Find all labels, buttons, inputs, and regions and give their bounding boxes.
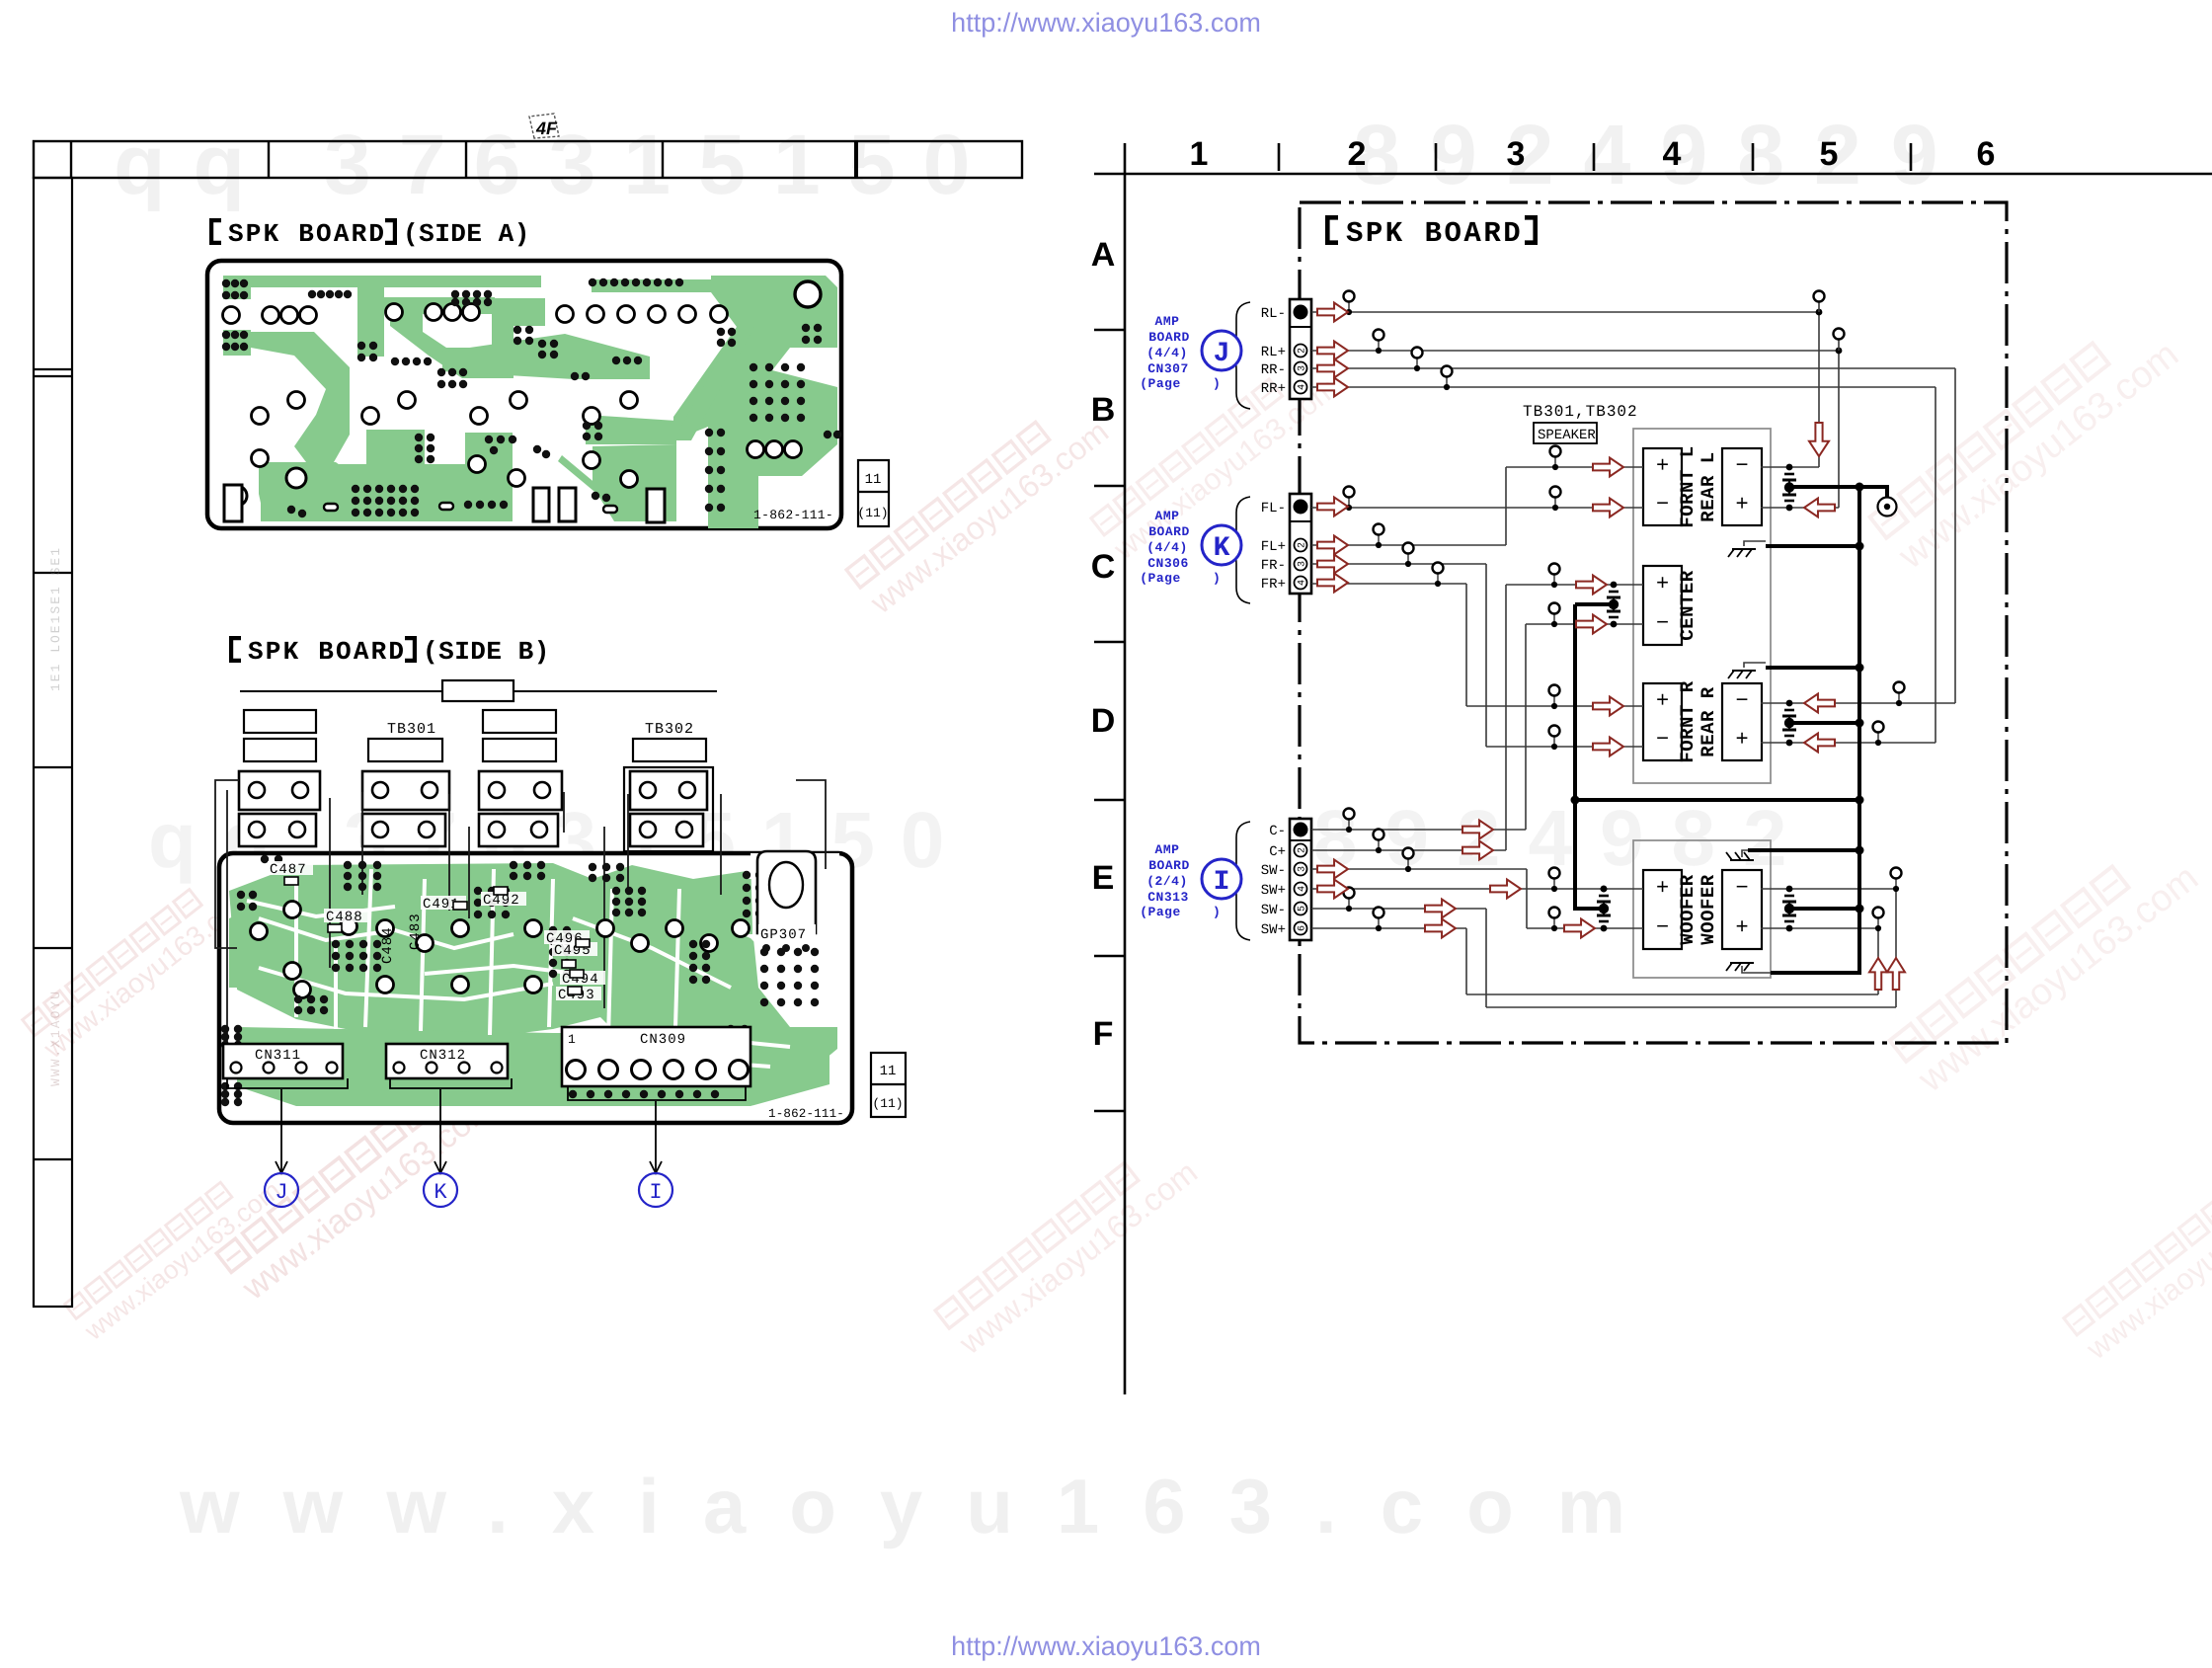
svg-text:RL+: RL+	[1261, 345, 1286, 360]
svg-text:): )	[1213, 905, 1221, 919]
svg-text:www.xiaoyu163.com: www.xiaoyu163.com	[79, 1175, 286, 1346]
svg-text:+: +	[1736, 913, 1749, 938]
side A solder slots	[324, 503, 617, 513]
svg-text:2: 2	[1348, 135, 1367, 173]
side B white trace channels	[247, 869, 790, 1067]
side A copper traces	[223, 276, 837, 528]
svg-text:3: 3	[1298, 561, 1308, 567]
svg-text:RL-: RL-	[1261, 306, 1286, 322]
LF logo	[529, 114, 559, 138]
connector CN313 (I) block	[1290, 819, 1311, 940]
svg-text:11: 11	[865, 472, 882, 488]
svg-text:−: −	[1736, 686, 1749, 711]
CN306 brace	[1228, 497, 1250, 603]
side A corner hole	[795, 281, 821, 307]
red arrows up bottom right	[1869, 958, 1887, 990]
node J circle	[265, 1173, 298, 1207]
svg-text:BOARD: BOARD	[1148, 858, 1190, 873]
wire C+ (I2 to CENTER plus)	[1311, 585, 1643, 850]
svg-text:2: 2	[1298, 542, 1308, 548]
svg-text:(Page: (Page	[1140, 376, 1181, 391]
connector CN307 (J) block	[1290, 299, 1311, 399]
grommet GP307	[757, 851, 816, 933]
svg-text:AMP: AMP	[1155, 314, 1180, 329]
svg-text:SPK BOARD: SPK BOARD	[228, 219, 386, 249]
svg-text:+: +	[1656, 451, 1669, 476]
svg-text:SW-: SW-	[1261, 863, 1286, 879]
svg-text:I: I	[649, 1180, 662, 1205]
svg-text:C484: C484	[380, 926, 396, 964]
column tick separators	[1278, 143, 1281, 171]
svg-text:4: 4	[1298, 384, 1308, 390]
svg-text:+: +	[1736, 490, 1749, 515]
side A sheet ref box	[858, 460, 889, 526]
svg-text:FR-: FR-	[1261, 558, 1286, 574]
red arrows into CENTER	[1576, 576, 1607, 595]
svg-text:): )	[1213, 571, 1221, 586]
svg-text:www.xiaoyu163.com: www.xiaoyu163.com	[864, 414, 1116, 621]
leader arrow to J	[276, 1089, 287, 1173]
svg-text:SPK BOARD: SPK BOARD	[1346, 217, 1523, 250]
side A bottom-left big holes	[286, 468, 306, 488]
svg-text:GP307: GP307	[760, 927, 807, 943]
svg-text:11: 11	[880, 1064, 897, 1079]
speaker group outer box	[1633, 429, 1771, 783]
svg-text:3: 3	[1507, 135, 1526, 173]
svg-text:http://www.xiaoyu163.com: http://www.xiaoyu163.com	[951, 8, 1261, 38]
watermark pink cluster below side B	[216, 1064, 502, 1308]
SPK BOARD SIDE B title	[229, 636, 550, 667]
wire REAR R right tails	[1898, 690, 1900, 703]
capacitor ref labels C487-C493	[268, 861, 313, 875]
svg-text:−: −	[1656, 490, 1669, 515]
svg-text:CN313: CN313	[1147, 890, 1189, 905]
svg-text:(2/4): (2/4)	[1146, 874, 1188, 889]
leader arrow to K	[434, 1089, 446, 1173]
thick link REAR R pair to bus	[1789, 721, 1859, 725]
svg-text:A: A	[1091, 236, 1116, 274]
thick mid bus horizontal	[1575, 798, 1859, 802]
svg-text:FL-: FL-	[1261, 501, 1286, 516]
ground symbol 2	[1744, 663, 1766, 668]
ground symbol 1	[1744, 541, 1766, 546]
watermark pink cluster near connector K	[1090, 350, 1344, 567]
svg-text:+: +	[1656, 570, 1669, 595]
svg-text:RR+: RR+	[1261, 381, 1286, 397]
svg-text:CN309: CN309	[640, 1032, 686, 1048]
speaker terminal block 1	[239, 771, 320, 810]
leader arrow to I	[650, 1101, 662, 1173]
svg-text:WOOFER: WOOFER	[1677, 874, 1698, 945]
svg-text:4: 4	[1298, 580, 1308, 586]
wire RL- (J1 to REAR L minus)	[1311, 311, 1819, 313]
svg-text:B: B	[1091, 391, 1116, 429]
speaker FORNT L terminal box	[1643, 448, 1682, 525]
wire SW+ second (I6 to WOOFER2 plus)	[1311, 928, 1878, 994]
svg-text:K: K	[434, 1180, 447, 1205]
node J circle schematic	[1202, 331, 1241, 370]
svg-text:CN307: CN307	[1147, 361, 1189, 376]
svg-text:http://www.xiaoyu163.com: http://www.xiaoyu163.com	[951, 1631, 1261, 1661]
CN307 brace	[1228, 302, 1250, 409]
svg-text:6: 6	[1298, 925, 1308, 931]
svg-text:REAR R: REAR R	[1698, 686, 1719, 757]
svg-text:www.xiaoyu163.com: www.xiaoyu163.com	[179, 1463, 1669, 1549]
svg-text:C483: C483	[408, 913, 424, 950]
svg-text:CENTER: CENTER	[1677, 570, 1698, 641]
svg-text:(SIDE B): (SIDE B)	[423, 637, 550, 667]
svg-text:E: E	[1092, 859, 1115, 897]
svg-text:2: 2	[1298, 348, 1308, 354]
svg-text:−: −	[1656, 913, 1669, 938]
svg-text:SW-: SW-	[1261, 903, 1286, 918]
svg-text:TB302: TB302	[645, 721, 694, 738]
svg-text:CN311: CN311	[255, 1048, 301, 1064]
watermark pink cluster center gap	[845, 391, 1115, 621]
svg-text:(4/4): (4/4)	[1146, 346, 1188, 360]
svg-text:−: −	[1656, 609, 1669, 634]
connector CN312	[386, 1044, 508, 1078]
svg-text:(11): (11)	[857, 506, 888, 520]
svg-text:TB301: TB301	[387, 721, 436, 738]
svg-text:1: 1	[1190, 135, 1209, 173]
svg-text:CN306: CN306	[1147, 556, 1189, 571]
SPK BOARD schematic title	[1325, 215, 1538, 250]
speaker REAR L terminal box	[1722, 448, 1762, 525]
svg-text:(11): (11)	[872, 1096, 903, 1111]
svg-text:(SIDE A): (SIDE A)	[403, 219, 530, 249]
svg-text:+: +	[1656, 686, 1669, 711]
connector pair symbol REAR L	[1786, 464, 1793, 471]
red arrow left on RL+	[1804, 499, 1835, 517]
tiny resistor icons	[284, 877, 590, 994]
side B solder pads	[344, 861, 352, 869]
side B hookup wires from terminal blocks	[215, 780, 826, 1045]
watermark pink cluster bottom left	[64, 1156, 286, 1346]
side B sheet ref box	[871, 1053, 906, 1117]
watermark pink cluster right top	[1869, 306, 2186, 578]
svg-text:FORNT L: FORNT L	[1677, 445, 1698, 527]
svg-text:3: 3	[1298, 365, 1308, 371]
red arrows into FORNT R	[1593, 697, 1623, 716]
svg-text:89249829: 89249829	[1353, 108, 1968, 202]
speaker WOOFER right terminal box	[1722, 870, 1762, 949]
svg-text:www.xiaoyu163.com: www.xiaoyu163.com	[1910, 857, 2206, 1101]
red arrows on SW second lines	[1425, 900, 1456, 918]
connector CN309	[562, 1027, 750, 1086]
thick woofer top ground link	[1748, 848, 1859, 852]
svg-text:1E1 LOE1SE1 SE1: 1E1 LOE1SE1 SE1	[48, 546, 63, 691]
svg-text:FORNT R: FORNT R	[1677, 680, 1698, 762]
side A plated holes	[223, 307, 240, 324]
wire FR- (K3 to FORNT R minus)	[1311, 564, 1643, 747]
svg-text:K: K	[1214, 533, 1230, 564]
thick link REAR L pair to bus and terminal ring	[1789, 487, 1887, 498]
svg-text:−: −	[1656, 725, 1669, 750]
thick center-woofer bus vertical	[1575, 604, 1604, 909]
wire SW+ (I4 to WOOFER plus)	[1311, 888, 1643, 890]
svg-text:−: −	[1736, 874, 1749, 899]
SPK board side A outline	[207, 261, 841, 528]
thick ground link 2	[1766, 666, 1859, 670]
svg-text:FL+: FL+	[1261, 539, 1286, 555]
svg-text:2: 2	[1298, 847, 1308, 853]
svg-text:C487: C487	[270, 862, 307, 878]
connector CN311	[223, 1044, 343, 1078]
svg-text:WOOFER: WOOFER	[1698, 874, 1719, 945]
watermark pink cluster bottom center	[934, 1132, 1204, 1362]
svg-text:C+: C+	[1269, 844, 1286, 860]
svg-text:I: I	[1214, 867, 1230, 898]
SPK board side B outline	[219, 853, 852, 1123]
speaker terminal block 2 (TB301)	[362, 771, 449, 810]
svg-text:AMP: AMP	[1155, 509, 1180, 523]
svg-text:5: 5	[1298, 906, 1308, 912]
svg-text:1: 1	[568, 1032, 576, 1047]
svg-text:SPEAKER: SPEAKER	[1538, 428, 1596, 443]
side B component rectangles row	[244, 710, 706, 761]
wire FL+ (K2 to FORNT L plus)	[1311, 467, 1643, 545]
connector pair symbol REAR R	[1786, 700, 1793, 707]
svg-text:+: +	[1736, 725, 1749, 750]
thick link woofer right pair to bus	[1789, 907, 1859, 911]
red arrows at CN313 pins 3,4	[1317, 860, 1348, 879]
ground symbol woofer bottom	[1742, 966, 1771, 973]
node I circle	[639, 1173, 672, 1207]
connector pair symbol WOOFER left	[1601, 886, 1608, 893]
side B plated holes	[251, 923, 268, 940]
svg-text:D: D	[1091, 702, 1116, 740]
SPK BOARD dash-dot boundary	[1300, 202, 2007, 1043]
watermark pink cluster right middle	[1889, 830, 2206, 1101]
svg-text:CN312: CN312	[420, 1048, 466, 1064]
woofer group outer box	[1633, 840, 1771, 978]
red arrows at CN306 pins	[1317, 498, 1348, 516]
svg-text:SW+: SW+	[1261, 922, 1286, 938]
svg-text:3: 3	[1298, 866, 1308, 872]
connector CN306 (K) block	[1290, 494, 1311, 594]
side B top rail line	[240, 690, 717, 692]
svg-text:BOARD: BOARD	[1148, 524, 1190, 539]
side B copper traces	[229, 863, 837, 1106]
red arrows on C lines	[1462, 821, 1493, 839]
ground symbol woofer top	[1742, 850, 1748, 857]
svg-text:WWW.X1AOYU: WWW.X1AOYU	[48, 990, 63, 1086]
connector pair symbol WOOFER right	[1786, 886, 1793, 893]
wire FL- (K1 to FORNT L minus)	[1311, 507, 1643, 509]
wire FR+ (K4 to FORNT R plus)	[1311, 584, 1643, 706]
svg-text:C: C	[1091, 548, 1116, 586]
watermark pink cluster left strip	[22, 862, 260, 1066]
svg-text:BOARD: BOARD	[1148, 330, 1190, 345]
svg-text:4: 4	[1663, 135, 1682, 173]
svg-text:(Page: (Page	[1140, 571, 1181, 586]
wire C- (I1 to CENTER minus)	[1311, 624, 1643, 830]
row tick separators	[1094, 329, 1125, 332]
speaker WOOFER left terminal box	[1643, 870, 1682, 949]
svg-text:SW+: SW+	[1261, 883, 1286, 899]
wire SW- (I3 to WOOFER minus)	[1311, 869, 1643, 928]
speaker FORNT R terminal box	[1643, 683, 1682, 760]
svg-text:+: +	[1656, 874, 1669, 899]
node K circle	[424, 1173, 457, 1207]
svg-text:SPK BOARD: SPK BOARD	[248, 637, 406, 667]
svg-text:): )	[1213, 376, 1221, 391]
svg-text:www.xiaoyu163.com: www.xiaoyu163.com	[953, 1154, 1205, 1362]
node I circle schematic	[1202, 859, 1241, 899]
side A solder pads	[222, 279, 230, 287]
SPEAKER boxed label	[1534, 423, 1597, 443]
svg-text:1-862-111-: 1-862-111-	[753, 508, 833, 522]
svg-text:6: 6	[1977, 135, 1996, 173]
svg-text:TB301,TB302: TB301,TB302	[1523, 403, 1638, 421]
side B rail component box	[442, 680, 513, 701]
speaker CENTER terminal box	[1643, 566, 1682, 645]
wire RR- (J3 to REAR R minus)	[1311, 368, 1955, 703]
svg-text:F: F	[1093, 1015, 1114, 1053]
chassis terminal ring	[1878, 498, 1897, 516]
svg-text:(4/4): (4/4)	[1146, 540, 1188, 555]
schematic grid axis lines	[1124, 143, 1127, 1394]
svg-text:1-862-111-: 1-862-111-	[768, 1107, 844, 1121]
side A component outlines	[224, 485, 665, 522]
svg-text:4F: 4F	[535, 119, 558, 138]
CN313 brace	[1228, 822, 1250, 940]
thick ground link 1	[1766, 544, 1859, 548]
watermark pink cluster bottom right	[2063, 1150, 2212, 1367]
svg-text:FR+: FR+	[1261, 577, 1286, 593]
speaker terminal block 3	[479, 771, 562, 810]
title block top band	[34, 141, 1022, 178]
svg-text:RR-: RR-	[1261, 362, 1286, 378]
svg-text:−: −	[1736, 451, 1749, 476]
svg-text:5: 5	[1820, 135, 1839, 173]
connector pair symbol CENTER	[1611, 582, 1618, 589]
wire RL+ (J2 to REAR L plus)	[1311, 351, 1839, 508]
wire SW- second (I5 to WOOFER2 minus)	[1311, 889, 1896, 1007]
red arrows left on REAR R	[1804, 694, 1835, 713]
node K circle schematic	[1202, 525, 1241, 565]
red arrow down on RL- vertical	[1809, 423, 1829, 456]
red arrows at CN307 pins	[1317, 303, 1348, 322]
title block left strip	[34, 178, 72, 1307]
speaker terminal block 4 (TB302)	[624, 767, 713, 851]
svg-text:AMP: AMP	[1155, 842, 1180, 857]
test point on RL- vertical	[1818, 298, 1820, 312]
svg-text:(Page: (Page	[1140, 905, 1181, 919]
svg-text:J: J	[275, 1180, 287, 1205]
thick link center pair	[1575, 602, 1614, 606]
thick ground bus vertical right	[1771, 487, 1859, 973]
wire RR+ (J4 to REAR R plus)	[1311, 387, 1935, 743]
GP307 white pocket	[750, 853, 839, 1027]
svg-text:C488: C488	[326, 910, 363, 925]
SPK BOARD SIDE A title	[209, 218, 530, 249]
svg-text:4: 4	[1298, 886, 1308, 892]
svg-text:J: J	[1214, 339, 1230, 369]
speaker REAR R terminal box	[1722, 683, 1762, 760]
svg-text:REAR L: REAR L	[1698, 451, 1719, 521]
red arrows into WOOFER	[1490, 880, 1521, 899]
svg-text:C-: C-	[1269, 824, 1286, 839]
red arrows into FORNT L	[1593, 458, 1623, 477]
